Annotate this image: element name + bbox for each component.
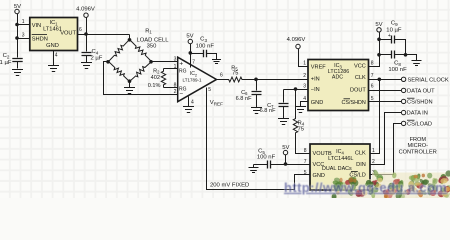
- overline CS dac: [351, 171, 358, 173]
- ground C4: [81, 63, 92, 69]
- junction C6 tap: [254, 78, 258, 82]
- wire amp pin7 supply: [190, 44, 192, 68]
- ground amp pin4: [183, 107, 194, 113]
- svg-text:3: 3: [22, 33, 25, 39]
- ADC IC3 LTC1286: [308, 60, 369, 111]
- svg-text:−: −: [179, 91, 183, 98]
- overline CS terminal: [407, 97, 415, 99]
- svg-text:CONTROLLER: CONTROLLER: [399, 149, 437, 155]
- node 5V terminal left: [15, 9, 19, 13]
- junction bridge right node: [149, 60, 153, 64]
- junction amp supply C3: [189, 51, 193, 55]
- node terminal CS/SHDN: [401, 99, 405, 103]
- svg-text:6.8 nF: 6.8 nF: [236, 96, 252, 102]
- svg-text:0.1%: 0.1%: [148, 83, 161, 89]
- svg-text:IC1: IC1: [50, 20, 59, 26]
- svg-text:+IN: +IN: [311, 77, 320, 83]
- wire bridge bottom ground stem: [129, 82, 131, 88]
- svg-text:R1: R1: [145, 28, 152, 34]
- node terminal SERIAL CLOCK: [401, 77, 405, 81]
- wire output line to ADC +IN: [246, 79, 309, 81]
- svg-text:5V: 5V: [282, 145, 289, 151]
- overline SHDN: [32, 34, 47, 36]
- svg-text:DIN: DIN: [356, 162, 366, 168]
- node 4.096V terminal left: [84, 13, 88, 17]
- svg-text:4: 4: [303, 96, 306, 102]
- svg-text:CLK: CLK: [355, 75, 366, 81]
- svg-text:http://www.qg-edu.a.com: http://www.qg-edu.a.com: [284, 180, 447, 195]
- svg-text:VCC: VCC: [354, 64, 366, 70]
- svg-text:DATA IN: DATA IN: [407, 111, 428, 117]
- resistor R1 bridge arm top-right: [130, 40, 152, 62]
- wire R4 to DAC VOUTB: [296, 141, 311, 154]
- node terminal CS/LOAD: [401, 121, 405, 125]
- svg-text:VIN: VIN: [32, 23, 41, 29]
- svg-text:5: 5: [371, 96, 374, 102]
- wire VOUT line: [78, 34, 130, 36]
- overline CS adc: [344, 98, 351, 100]
- wire bridge right node to amp plus: [152, 61, 178, 63]
- wire ADC DOUT line: [369, 90, 402, 92]
- svg-text:7: 7: [304, 159, 307, 165]
- svg-text:1: 1: [174, 64, 177, 70]
- resistor R1 bridge arm bottom-left: [109, 62, 130, 82]
- wire RG top stub: [164, 68, 178, 70]
- svg-text:RG: RG: [179, 69, 187, 75]
- node 5V terminal DAC: [283, 150, 287, 154]
- svg-text:1: 1: [303, 60, 306, 66]
- resistor R1 bridge arm top-left: [109, 40, 130, 62]
- ground IC1 pin4: [48, 66, 59, 72]
- wire 5V to DAC VCC junction: [285, 155, 287, 165]
- svg-text:5: 5: [304, 170, 307, 176]
- svg-text:100 nF: 100 nF: [196, 43, 215, 49]
- capacitor C2: [12, 59, 22, 62]
- svg-text:GND: GND: [313, 173, 325, 179]
- svg-text:GND: GND: [311, 100, 323, 106]
- ground C5: [249, 168, 259, 173]
- node 5V terminal amp: [188, 39, 192, 43]
- wire 4.096V terminal drop: [86, 18, 88, 35]
- junction DAC VCC 5V: [284, 162, 288, 166]
- junction C9 tap: [377, 38, 381, 42]
- svg-text:GND: GND: [46, 43, 59, 49]
- svg-text:CS/LOAD: CS/LOAD: [407, 122, 432, 128]
- svg-text:VREF: VREF: [210, 100, 223, 106]
- svg-text:75: 75: [298, 126, 305, 132]
- svg-text:4.096V: 4.096V: [287, 37, 306, 43]
- junction VOUT 4.096V C4 tap: [84, 32, 88, 36]
- svg-text:C2: C2: [3, 53, 10, 59]
- svg-text:6: 6: [371, 84, 374, 90]
- svg-text:5V: 5V: [186, 33, 193, 39]
- node terminal DATA IN: [401, 110, 405, 114]
- capacitor C4: [86, 35, 88, 52]
- svg-text:IC4: IC4: [336, 149, 344, 155]
- resistor R2 402: [161, 69, 165, 88]
- wire ADC GND pin4: [301, 102, 309, 107]
- svg-text:6.8 nF: 6.8 nF: [260, 108, 276, 114]
- svg-text:VOUTB: VOUTB: [313, 151, 333, 157]
- svg-text:7: 7: [371, 73, 374, 79]
- node terminal DATA OUT: [401, 88, 405, 92]
- svg-text:2 µF: 2 µF: [91, 55, 103, 61]
- capacitor C5 100nF: [254, 164, 268, 166]
- wire VIN pin1 stub: [18, 24, 30, 26]
- svg-text:3: 3: [303, 84, 306, 90]
- overline CS load: [407, 119, 415, 121]
- capacitor C6: [256, 80, 258, 91]
- junction C8 tap: [377, 53, 381, 57]
- svg-text:MICRO-: MICRO-: [407, 143, 428, 149]
- wire 5V rail left: [17, 14, 19, 58]
- junction bridge left node: [106, 60, 110, 64]
- svg-text:100 nF: 100 nF: [388, 67, 407, 73]
- watermark confetti band: [331, 169, 450, 200]
- svg-text:ADC: ADC: [332, 75, 343, 81]
- svg-text:6: 6: [220, 73, 223, 79]
- ground bridge: [124, 88, 135, 94]
- ground C8 C9: [412, 61, 422, 66]
- resistor R4 75: [293, 90, 297, 141]
- svg-text:7: 7: [192, 60, 195, 66]
- resistor R5 75: [217, 77, 246, 82]
- wire ADC CLK line: [369, 79, 402, 81]
- svg-text:DUAL DACs: DUAL DACs: [322, 166, 352, 172]
- ground C2: [12, 70, 23, 76]
- ground ADC pin4: [295, 107, 306, 113]
- wire SHDN pin3 stub: [18, 38, 30, 40]
- wire DAC CLK riser: [371, 80, 380, 154]
- capacitor C7: [283, 90, 285, 103]
- svg-text:4: 4: [55, 53, 58, 59]
- svg-text:+: +: [179, 60, 183, 67]
- svg-text:5: 5: [208, 87, 211, 93]
- wire RG bottom stub: [164, 87, 178, 89]
- wire ADC VCC pin8 to 5V rail: [369, 33, 380, 67]
- svg-text:VREF: VREF: [311, 64, 327, 70]
- wire IC1 GND pin4: [53, 51, 55, 66]
- wire DATA IN to DAC DIN: [371, 113, 402, 165]
- junction SHDN tap: [15, 36, 19, 40]
- svg-text:+: +: [388, 33, 391, 39]
- wire ADC -IN line: [284, 89, 309, 91]
- svg-text:CLK: CLK: [355, 151, 366, 157]
- svg-text:1: 1: [22, 19, 25, 25]
- svg-text:100 nF: 100 nF: [257, 155, 276, 161]
- wire bridge top drop: [129, 35, 131, 41]
- ground C3: [212, 60, 221, 64]
- svg-text:75: 75: [232, 70, 238, 76]
- svg-text:1: 1: [372, 148, 375, 154]
- junction bridge top node: [128, 38, 132, 42]
- svg-text:200 mV FIXED: 200 mV FIXED: [210, 183, 249, 189]
- junction VIN tap: [15, 23, 19, 27]
- svg-text:DATA OUT: DATA OUT: [407, 89, 435, 95]
- svg-text:R2: R2: [153, 68, 160, 74]
- svg-text:4.096V: 4.096V: [76, 7, 95, 13]
- svg-text:SHDN: SHDN: [32, 37, 48, 43]
- op-amp IC2 LT1789-1: [178, 57, 217, 101]
- junction R4 tap: [294, 87, 298, 91]
- svg-text:LT1789-1: LT1789-1: [183, 77, 202, 82]
- svg-text:VOUT: VOUT: [60, 30, 76, 36]
- svg-text:LT1461: LT1461: [43, 27, 62, 33]
- wire ADC CS/SHDN line: [369, 101, 402, 103]
- junction bridge bottom node: [128, 79, 132, 83]
- svg-text:CS/SHDN: CS/SHDN: [407, 100, 433, 106]
- svg-text:2: 2: [174, 89, 177, 95]
- svg-text:5V: 5V: [375, 22, 382, 28]
- svg-text:6: 6: [79, 27, 82, 33]
- capacitor C3: [191, 53, 204, 55]
- svg-text:3: 3: [174, 56, 177, 62]
- capacitor C8 100nF: [380, 54, 392, 56]
- regulator IC1 LT1461: [30, 18, 78, 51]
- svg-text:SERIAL CLOCK: SERIAL CLOCK: [408, 77, 449, 83]
- svg-text:1 µF: 1 µF: [0, 60, 12, 66]
- wire ADC VREF pin1: [299, 49, 309, 67]
- DAC IC4 LTC1446L: [310, 144, 370, 190]
- capacitor C9 10uF: [380, 39, 392, 41]
- wire bridge left node to amp minus: [104, 62, 178, 95]
- svg-text:CS/SHDN: CS/SHDN: [342, 100, 366, 106]
- svg-text:8: 8: [371, 60, 374, 66]
- node 5V terminal top right: [377, 28, 381, 32]
- svg-text:350: 350: [147, 43, 157, 49]
- svg-text:8: 8: [304, 148, 307, 154]
- junction C9 C8 join: [404, 53, 408, 57]
- svg-text:C3: C3: [200, 37, 207, 43]
- node 4.096V terminal right: [296, 44, 300, 48]
- wire DAC VCC pin7: [286, 164, 311, 166]
- ground C6: [251, 108, 262, 114]
- wire CS/LOAD to DAC CS/LD: [371, 124, 402, 175]
- svg-text:LTC1446L: LTC1446L: [328, 156, 353, 162]
- wire amp pin4 ground stem: [188, 97, 190, 107]
- svg-text:8: 8: [174, 82, 177, 88]
- svg-text:DOUT: DOUT: [350, 87, 366, 93]
- svg-text:FROM: FROM: [410, 137, 427, 143]
- svg-text:5V: 5V: [14, 4, 21, 10]
- svg-text:−IN: −IN: [311, 87, 320, 93]
- svg-text:4: 4: [191, 99, 194, 105]
- svg-text:402: 402: [151, 75, 160, 81]
- svg-text:2: 2: [303, 73, 306, 79]
- ground C7: [278, 119, 289, 125]
- svg-text:C9: C9: [391, 21, 398, 27]
- svg-text:2: 2: [372, 159, 375, 165]
- wire amp pin5 VREF 200mV line: [207, 88, 311, 190]
- junction DAC CLK tap: [378, 78, 382, 82]
- resistor R1 bridge arm bottom-right: [130, 62, 152, 82]
